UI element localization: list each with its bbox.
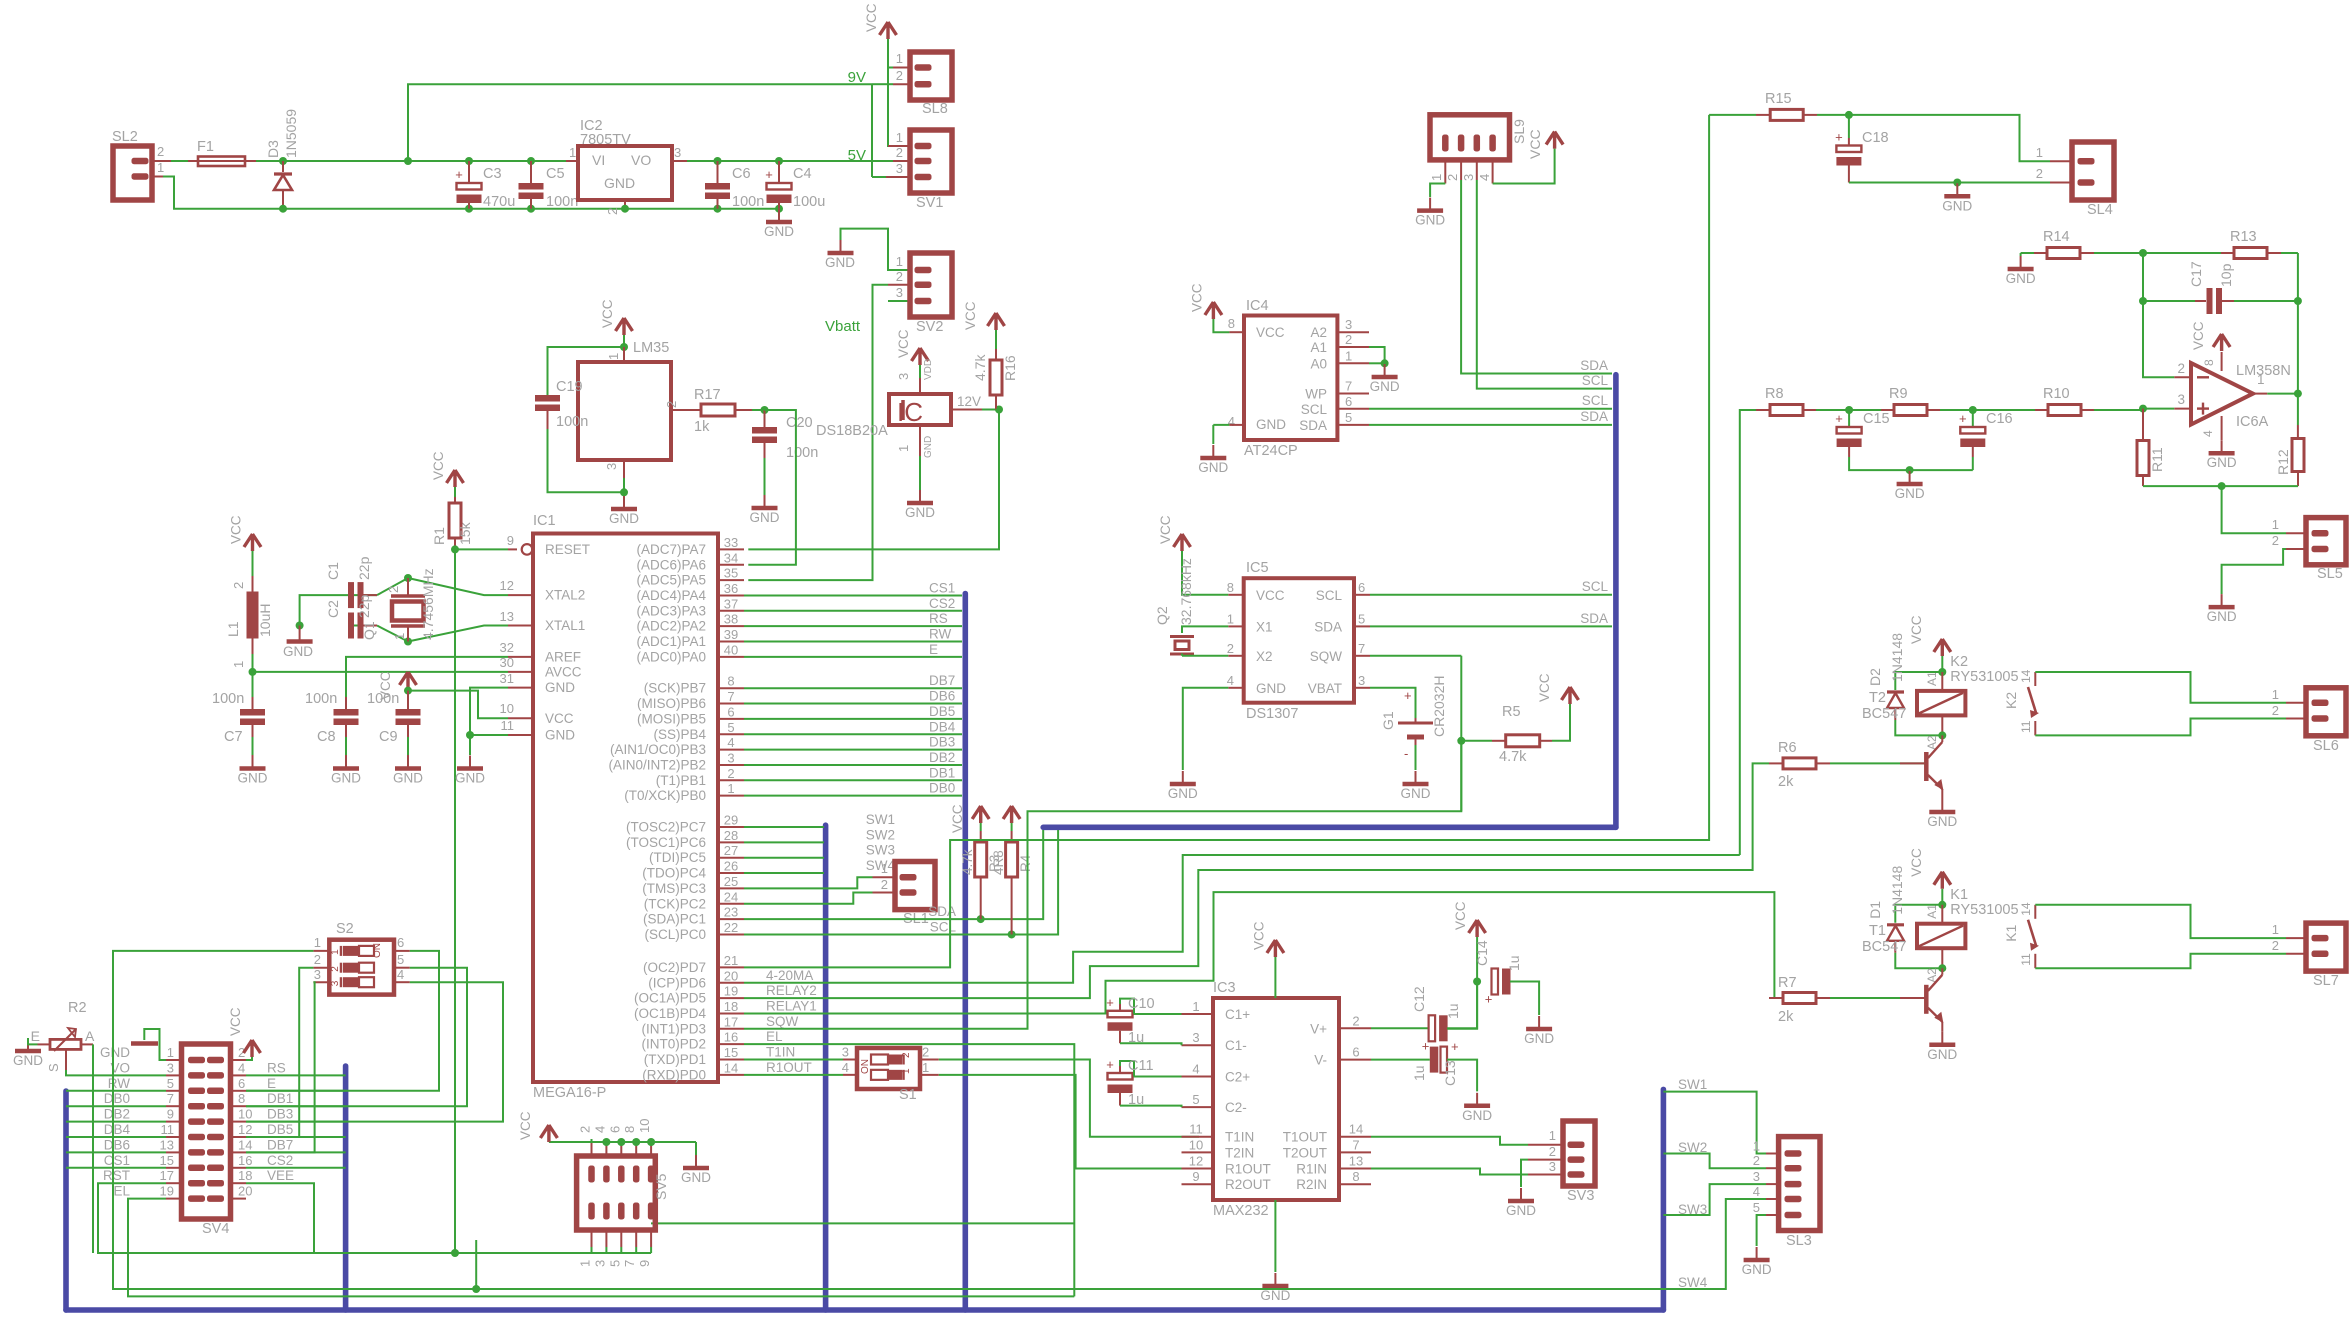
- svg-text:16: 16: [724, 1030, 738, 1045]
- svg-text:GND: GND: [455, 771, 485, 786]
- svg-text:30: 30: [500, 655, 514, 670]
- svg-text:GND: GND: [1256, 417, 1286, 432]
- svg-text:6: 6: [238, 1076, 245, 1091]
- svg-text:R8: R8: [1765, 386, 1784, 402]
- svg-text:BC547: BC547: [1862, 706, 1906, 722]
- wire R1OUT to MAX232: [939, 1075, 1199, 1169]
- svg-text:1: 1: [881, 861, 888, 876]
- svg-text:VCC: VCC: [1453, 901, 1468, 930]
- svg-text:4: 4: [592, 1126, 607, 1133]
- svg-text:1: 1: [2272, 517, 2279, 532]
- svg-text:R4: R4: [1018, 854, 1033, 872]
- svg-text:GND: GND: [393, 771, 423, 786]
- svg-text:GND: GND: [2207, 609, 2237, 624]
- svg-text:10: 10: [1189, 1137, 1203, 1152]
- svg-text:V+: V+: [1310, 1021, 1327, 1036]
- svg-text:100n: 100n: [212, 691, 244, 707]
- svg-text:Vbatt: Vbatt: [825, 318, 861, 335]
- svg-text:5: 5: [1345, 410, 1352, 425]
- svg-text:C5: C5: [546, 166, 565, 182]
- capacitor C11 1u: [1133, 1076, 1182, 1078]
- svg-text:4: 4: [842, 1060, 849, 1075]
- svg-text:SL2: SL2: [112, 129, 138, 145]
- wire feedback vertical right: [2297, 253, 2299, 394]
- capacitor C1 22p: [408, 578, 508, 595]
- switch contact K1: [2034, 905, 2036, 919]
- svg-text:19: 19: [160, 1184, 174, 1199]
- svg-text:R11: R11: [2149, 447, 2165, 472]
- svg-text:5V: 5V: [848, 147, 866, 164]
- ground symbol below C18 net: [1956, 183, 1958, 196]
- resistor R4 4.7k pullup: [1003, 806, 1020, 823]
- svg-text:AVCC: AVCC: [545, 664, 582, 679]
- svg-text:12V: 12V: [957, 394, 981, 409]
- svg-text:15: 15: [160, 1153, 174, 1168]
- bus SW riser S2 area: [823, 825, 829, 1310]
- svg-text:12: 12: [238, 1122, 252, 1137]
- IC2 pin2 to gnd rail: [624, 200, 626, 209]
- svg-text:4R8: 4R8: [991, 850, 1006, 875]
- svg-text:+: +: [1404, 688, 1412, 703]
- wire T1OUT to SV3.1: [1371, 1137, 1528, 1145]
- svg-text:(AIN0/INT2)PB2: (AIN0/INT2)PB2: [608, 757, 706, 772]
- svg-text:2: 2: [727, 766, 734, 781]
- svg-text:1u: 1u: [1445, 1003, 1461, 1019]
- battery G1 CR2032H: [1370, 688, 1416, 718]
- svg-text:SQW: SQW: [766, 1014, 799, 1029]
- wire S2.1 long loop SW4: [113, 951, 1726, 1289]
- svg-text:3: 3: [592, 1260, 607, 1267]
- svg-text:4: 4: [1227, 673, 1234, 688]
- svg-text:(TXD)PD1: (TXD)PD1: [644, 1052, 706, 1067]
- svg-text:C1+: C1+: [1225, 1007, 1250, 1022]
- capacitor C3 470u: [465, 157, 473, 165]
- svg-text:C12: C12: [1411, 986, 1427, 1012]
- wire EL loop: [128, 1199, 1074, 1297]
- svg-text:+: +: [455, 167, 463, 182]
- svg-text:SDA: SDA: [1580, 409, 1608, 424]
- svg-text:R9: R9: [1889, 386, 1908, 402]
- svg-text:(TOSC2)PC7: (TOSC2)PC7: [626, 820, 706, 835]
- wire DB2: [744, 764, 962, 766]
- svg-text:SW4: SW4: [1678, 1275, 1708, 1290]
- svg-text:XTAL2: XTAL2: [545, 588, 585, 603]
- svg-text:VCC: VCC: [229, 515, 244, 544]
- svg-text:1: 1: [606, 353, 621, 360]
- wire 9V riser: [408, 84, 872, 161]
- wire SL2.1 to gnd rail: [152, 176, 163, 178]
- svg-text:R10: R10: [2043, 386, 2070, 402]
- svg-text:DS18B20A: DS18B20A: [816, 423, 888, 439]
- svg-text:8: 8: [1352, 1169, 1359, 1184]
- svg-text:(TOSC1)PC6: (TOSC1)PC6: [626, 835, 706, 850]
- switch contact K2: [2034, 672, 2036, 686]
- svg-text:15k: 15k: [457, 521, 473, 545]
- connector SL2: [113, 146, 152, 200]
- wire SW4 to SL3.4: [1663, 1199, 1766, 1289]
- wire SV4.2 vcc: [246, 1057, 252, 1060]
- connector SL9: [1430, 115, 1510, 160]
- wire DB6: [744, 703, 962, 705]
- svg-text:2: 2: [896, 145, 903, 160]
- svg-text:A: A: [85, 1028, 95, 1044]
- svg-text:5: 5: [1753, 1200, 1760, 1215]
- svg-text:2: 2: [896, 269, 903, 284]
- svg-text:(TMS)PC3: (TMS)PC3: [642, 881, 706, 896]
- svg-text:4.7456MHz: 4.7456MHz: [420, 568, 436, 640]
- svg-text:D1: D1: [1867, 901, 1883, 919]
- svg-text:DB2: DB2: [929, 750, 955, 765]
- wire SQW down to trunk: [1460, 741, 1462, 811]
- svg-text:C16: C16: [1986, 411, 2013, 427]
- svg-text:ON: ON: [372, 943, 383, 958]
- svg-text:3: 3: [314, 967, 321, 982]
- svg-text:VCC: VCC: [2191, 321, 2206, 350]
- wire SL5.2 gnd: [2222, 549, 2286, 594]
- svg-text:(TCK)PC2: (TCK)PC2: [644, 896, 706, 911]
- svg-text:3: 3: [674, 145, 681, 160]
- resistor R10: [1973, 409, 2035, 411]
- svg-text:2: 2: [2272, 703, 2279, 718]
- svg-text:RW: RW: [108, 1076, 131, 1091]
- svg-text:1: 1: [231, 661, 246, 668]
- svg-text:1: 1: [330, 949, 341, 955]
- resistor R11: [2142, 409, 2144, 441]
- svg-text:1: 1: [2272, 687, 2279, 702]
- svg-text:2: 2: [157, 144, 164, 159]
- svg-text:C9: C9: [379, 729, 398, 745]
- resistor R15: [1709, 114, 1756, 116]
- svg-text:DB4: DB4: [104, 1122, 131, 1137]
- wire S2.4 to DB3: [246, 982, 503, 1121]
- svg-text:22p: 22p: [356, 556, 372, 580]
- connector SL1: [873, 876, 896, 878]
- svg-text:K2: K2: [2003, 692, 2019, 709]
- capacitor C16: [1972, 410, 1974, 427]
- svg-text:8: 8: [1228, 316, 1235, 331]
- svg-text:1: 1: [1549, 1128, 1556, 1143]
- svg-text:2: 2: [605, 208, 620, 215]
- wire DB3: [744, 749, 962, 751]
- svg-text:VCC: VCC: [1189, 283, 1204, 312]
- svg-text:4: 4: [397, 967, 404, 982]
- svg-text:1: 1: [727, 781, 734, 796]
- svg-text:VCC: VCC: [228, 1007, 243, 1036]
- resistor R7 2k: [1769, 997, 1783, 999]
- wire C18 bottom to SL4.2: [1849, 182, 2050, 184]
- power symbol VCC above MAX232: [1267, 940, 1284, 957]
- bus LCD data vertical: [962, 594, 968, 1311]
- svg-text:4: 4: [2201, 430, 2215, 437]
- node SQW/R5: [1457, 737, 1465, 745]
- svg-text:(TDI)PC5: (TDI)PC5: [649, 850, 706, 865]
- connector SV5: [577, 1156, 656, 1230]
- svg-text:29: 29: [724, 813, 738, 828]
- wire SDA row: [744, 830, 1043, 919]
- svg-text:6: 6: [1345, 394, 1352, 409]
- wire RS: [744, 625, 962, 627]
- svg-text:E: E: [929, 642, 938, 657]
- svg-text:9V: 9V: [848, 69, 866, 86]
- svg-text:S1: S1: [899, 1087, 917, 1103]
- svg-text:3: 3: [1358, 673, 1365, 688]
- ground symbol below C20: [764, 495, 766, 508]
- svg-text:3: 3: [896, 373, 911, 380]
- svg-text:VCC: VCC: [431, 451, 446, 480]
- svg-text:C11: C11: [1128, 1058, 1154, 1074]
- svg-text:IC: IC: [897, 397, 923, 427]
- connector SL7: [2286, 937, 2306, 939]
- svg-text:100u: 100u: [793, 194, 825, 210]
- svg-text:VCC: VCC: [1158, 515, 1173, 544]
- wire R2 A down: [92, 1044, 94, 1253]
- svg-text:12: 12: [500, 578, 514, 593]
- svg-text:DB6: DB6: [104, 1137, 130, 1152]
- svg-text:RELAY2: RELAY2: [766, 983, 817, 998]
- capacitor C5 100n: [527, 157, 535, 165]
- svg-text:SL6: SL6: [2313, 738, 2339, 754]
- svg-text:2: 2: [578, 1126, 593, 1133]
- svg-text:C3: C3: [483, 166, 502, 182]
- node A2 K2: [1938, 731, 1946, 739]
- resistor R9: [1849, 409, 1881, 411]
- svg-text:SDA: SDA: [1299, 418, 1327, 433]
- svg-text:SDA: SDA: [1580, 611, 1608, 626]
- svg-text:14: 14: [2019, 902, 2033, 916]
- wire E: [744, 656, 962, 658]
- svg-text:SV3: SV3: [1567, 1188, 1594, 1204]
- svg-text:C1: C1: [325, 562, 341, 580]
- svg-text:3: 3: [1461, 174, 1476, 181]
- svg-text:RS: RS: [929, 611, 948, 626]
- wire DB5: [744, 718, 962, 720]
- connector SV2: [910, 253, 952, 317]
- svg-text:CS2: CS2: [267, 1153, 293, 1168]
- wire S2.5 to DB1: [246, 968, 467, 1106]
- svg-text:VCC: VCC: [864, 3, 879, 32]
- wire RESET long vertical: [454, 549, 456, 1253]
- svg-text:(ADC1)PA1: (ADC1)PA1: [636, 634, 706, 649]
- svg-text:DB4: DB4: [929, 719, 956, 734]
- svg-text:100n: 100n: [732, 194, 764, 210]
- svg-text:GND: GND: [283, 644, 313, 659]
- opamp power pin 8: [2221, 352, 2223, 371]
- node 9V tap: [404, 157, 412, 165]
- crystal Q2 32.768kHz: [1182, 626, 1228, 633]
- svg-text:R1OUT: R1OUT: [1225, 1162, 1271, 1177]
- svg-text:8: 8: [727, 674, 734, 689]
- svg-text:VCC: VCC: [1537, 673, 1552, 702]
- svg-text:(OC1A)PD5: (OC1A)PD5: [634, 991, 706, 1006]
- svg-text:C19: C19: [556, 379, 583, 395]
- resistor R13: [2139, 249, 2147, 257]
- svg-text:VCC: VCC: [896, 329, 911, 358]
- wire SW1 to SL3.1: [1663, 1092, 1766, 1154]
- svg-text:DB1: DB1: [929, 765, 955, 780]
- svg-text:(T1)PB1: (T1)PB1: [656, 773, 706, 788]
- wire EL: [744, 1044, 1074, 1296]
- svg-text:8: 8: [2202, 359, 2216, 366]
- wire GND31 pin: [470, 688, 508, 755]
- wire IC4 SDA to bus: [1369, 424, 1612, 426]
- wire SL9.3 SCL: [1476, 160, 1478, 180]
- svg-text:GND: GND: [905, 505, 935, 520]
- wire IC2 VO to 5V: [672, 160, 687, 162]
- svg-text:1N4148: 1N4148: [1889, 866, 1905, 915]
- wire SW3 to SL3.3: [1663, 1184, 1766, 1215]
- wire S2.3 to DB7: [246, 982, 315, 1152]
- svg-text:(ADC0)PA0: (ADC0)PA0: [636, 649, 706, 664]
- svg-text:ON: ON: [860, 1059, 871, 1074]
- svg-text:GND: GND: [100, 1045, 130, 1060]
- svg-text:VCC: VCC: [1527, 129, 1543, 159]
- svg-text:E: E: [267, 1076, 276, 1091]
- svg-text:24: 24: [724, 889, 738, 904]
- wire bottom rail 1253: [98, 1252, 651, 1254]
- sensor DS18B20A IC: [889, 394, 951, 425]
- wire CS1: [744, 594, 962, 596]
- svg-text:A0: A0: [1310, 356, 1327, 371]
- svg-text:5: 5: [1192, 1092, 1199, 1107]
- svg-text:GND: GND: [825, 255, 855, 270]
- svg-text:26: 26: [724, 859, 738, 874]
- svg-text:1: 1: [1345, 348, 1352, 363]
- svg-text:3: 3: [1192, 1030, 1199, 1045]
- power symbol VCC above DS18B20: [912, 348, 929, 365]
- wire to SL5.1: [2222, 486, 2286, 533]
- wire DB1: [744, 779, 962, 781]
- svg-text:1u: 1u: [1128, 1092, 1144, 1108]
- wire RELAY1 trunk to R7: [744, 892, 1774, 1013]
- wire PC2 to SL1.2: [744, 893, 873, 904]
- svg-text:GND: GND: [1927, 814, 1957, 829]
- svg-text:11: 11: [161, 1122, 175, 1137]
- svg-text:+: +: [1835, 130, 1843, 145]
- svg-text:28: 28: [724, 828, 738, 843]
- svg-text:GND: GND: [238, 771, 268, 786]
- resistor R3 4.7k pullup: [972, 806, 989, 823]
- svg-text:1: 1: [1753, 1139, 1760, 1154]
- svg-text:38: 38: [724, 612, 738, 627]
- ground symbol SV5: [695, 1142, 697, 1155]
- svg-text:VCC: VCC: [1909, 615, 1924, 644]
- wire AREF to C8: [346, 657, 508, 697]
- power symbol VCC above IC4: [1205, 302, 1222, 319]
- svg-text:100n: 100n: [367, 691, 399, 707]
- svg-text:10uH: 10uH: [257, 604, 273, 637]
- regulator IC2 7805TV: [566, 160, 578, 162]
- node VCC/C9: [404, 687, 412, 695]
- svg-text:R1: R1: [431, 527, 447, 545]
- node R9/C16: [1969, 406, 1977, 414]
- connector SL5: [2286, 532, 2306, 534]
- svg-text:K1: K1: [2003, 924, 2019, 941]
- svg-text:VI: VI: [592, 152, 605, 168]
- svg-text:S2: S2: [336, 921, 354, 937]
- svg-text:T1IN: T1IN: [766, 1045, 795, 1060]
- svg-text:13: 13: [1349, 1154, 1363, 1169]
- svg-text:(ICP)PD6: (ICP)PD6: [648, 975, 706, 990]
- wire T1IN to S1: [744, 1059, 843, 1061]
- svg-text:LM35: LM35: [633, 340, 669, 356]
- svg-text:5: 5: [607, 1260, 622, 1267]
- power symbol VCC K1: [1934, 872, 1951, 889]
- svg-text:(AIN1/OC0)PB3: (AIN1/OC0)PB3: [610, 742, 706, 757]
- svg-text:VCC: VCC: [600, 299, 615, 328]
- svg-text:5: 5: [1358, 611, 1365, 626]
- svg-text:MEGA16-P: MEGA16-P: [533, 1085, 606, 1101]
- power symbol VCC above LM35: [616, 318, 633, 335]
- svg-text:4.7k: 4.7k: [960, 849, 975, 875]
- svg-text:GND: GND: [2207, 455, 2237, 470]
- svg-text:T1: T1: [1869, 923, 1886, 939]
- svg-text:1: 1: [167, 1045, 174, 1060]
- svg-text:1N4148: 1N4148: [1889, 633, 1905, 682]
- svg-text:XTAL1: XTAL1: [545, 618, 585, 633]
- svg-text:DB6: DB6: [929, 689, 955, 704]
- svg-text:1u: 1u: [1128, 1030, 1144, 1046]
- dip switch S1: [843, 1059, 857, 1061]
- opamp power pin 4: [2221, 416, 2223, 440]
- node AVCC: [249, 668, 257, 676]
- svg-text:1: 1: [392, 633, 407, 640]
- svg-text:3: 3: [727, 750, 734, 765]
- svg-text:GND: GND: [545, 680, 575, 695]
- wire T1IN to MAX232: [939, 1060, 1199, 1137]
- svg-text:RESET: RESET: [545, 542, 590, 557]
- svg-text:19: 19: [724, 984, 738, 999]
- ground symbol T1 emitter: [1941, 1032, 1943, 1045]
- svg-text:27: 27: [724, 843, 738, 858]
- svg-text:13: 13: [160, 1137, 174, 1152]
- svg-text:22p: 22p: [356, 594, 372, 618]
- wire SV2.1 to gnd: [841, 229, 911, 270]
- svg-text:+: +: [1106, 995, 1114, 1010]
- svg-text:GND: GND: [1927, 1047, 1957, 1062]
- svg-text:T1OUT: T1OUT: [1283, 1130, 1327, 1145]
- svg-text:1: 1: [896, 51, 903, 66]
- ic IC3 MAX232: [1213, 998, 1339, 1200]
- capacitor C6 100n: [714, 157, 722, 165]
- wire VCC to LM35 pin1: [623, 335, 625, 347]
- svg-text:4: 4: [238, 1060, 245, 1075]
- svg-text:1N5059: 1N5059: [283, 109, 299, 158]
- svg-text:32: 32: [500, 640, 514, 655]
- svg-text:GND: GND: [1524, 1031, 1554, 1046]
- svg-text:2k: 2k: [1778, 774, 1794, 790]
- svg-text:SV5: SV5: [653, 1173, 669, 1200]
- svg-text:VCC: VCC: [1909, 848, 1924, 877]
- svg-text:7: 7: [167, 1091, 174, 1106]
- svg-text:R1IN: R1IN: [1296, 1162, 1327, 1177]
- bus SL3 riser: [1661, 1089, 1667, 1310]
- svg-text:4: 4: [1477, 174, 1492, 181]
- svg-text:14: 14: [1349, 1122, 1363, 1137]
- wires SV4 left rows to bus: [66, 1090, 166, 1092]
- svg-text:WP: WP: [1305, 387, 1327, 402]
- svg-text:SL8: SL8: [922, 101, 948, 117]
- node C2/GND: [296, 622, 304, 630]
- crystal Q1 4.7456MHz: [404, 574, 412, 582]
- capacitor C17 10p: [2139, 297, 2147, 305]
- svg-text:17: 17: [724, 1014, 738, 1029]
- wires SV5 bottom pins: [591, 1247, 593, 1253]
- wire SV4.1 gnd: [144, 1029, 166, 1060]
- wire R14 left to gnd: [2020, 253, 2022, 256]
- wire node to PA7: [748, 410, 999, 550]
- dip switch S2: [329, 940, 394, 995]
- svg-text:BC547: BC547: [1862, 939, 1906, 955]
